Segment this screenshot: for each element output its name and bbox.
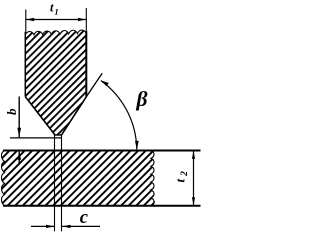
angle beta arc: [101, 81, 137, 150]
svg-text:b: b: [4, 108, 19, 115]
angle beta upper arrow (points up-left to bevel line): [101, 80, 109, 86]
bottom plate bottom edge (extends right as extension line for t2): [3, 205, 201, 207]
dimension t1 left extension line: [25, 10, 27, 34]
dimension t2 bottom arrow (points down): [192, 197, 195, 205]
svg-text:t: t: [50, 1, 54, 15]
svg-text:β: β: [136, 87, 148, 111]
top plate right bevel edge: [62, 97, 87, 135]
top plate root face: [55, 134, 63, 136]
bottom plate left wavy break edge: [1, 151, 4, 206]
angle beta lower arrow (points down to plate surface): [135, 141, 139, 150]
bottom plate hatched body (between wavy break edges): [1, 150, 154, 205]
svg-text:1: 1: [54, 7, 58, 17]
dimension t2 line with arrows: [193, 151, 195, 205]
svg-text:c: c: [80, 208, 88, 228]
dimension b extension line (root level): [10, 137, 62, 139]
top plate wavy break edge (top): [25, 30, 86, 35]
dimension t1 left arrow: [26, 18, 34, 21]
dimension t1 right extension line: [85, 8, 87, 31]
dimension t1 right arrow: [78, 18, 86, 21]
dimension b vertical line with down arrow: [18, 97, 20, 138]
bevel face extension line (for angle beta): [86, 73, 102, 97]
dimension c left line: [31, 225, 55, 227]
dimension t2 top arrow (points up): [192, 151, 195, 159]
top plate right edge: [85, 31, 87, 97]
top plate left edge: [24, 32, 26, 97]
root land left edge / c left extension line: [54, 135, 56, 231]
dimension t1 line: [26, 19, 86, 21]
dimension b lower arrow (points up, below plate surface): [17, 151, 21, 160]
dimension c left arrow (points right): [46, 225, 55, 228]
root land right edge / c right extension line: [61, 135, 63, 231]
dimension b upper arrow (points down): [17, 128, 21, 137]
dimension c right arrow (points left): [62, 225, 71, 228]
dimension c right line: [62, 225, 101, 227]
bottom plate right wavy break edge: [151, 150, 154, 205]
top plate hatched body (bounded by wavy break on top, bevels at bottom): [25, 30, 86, 135]
bottom plate top edge (extends right as extension line for t2): [3, 150, 201, 152]
top plate left bevel edge: [25, 97, 55, 135]
